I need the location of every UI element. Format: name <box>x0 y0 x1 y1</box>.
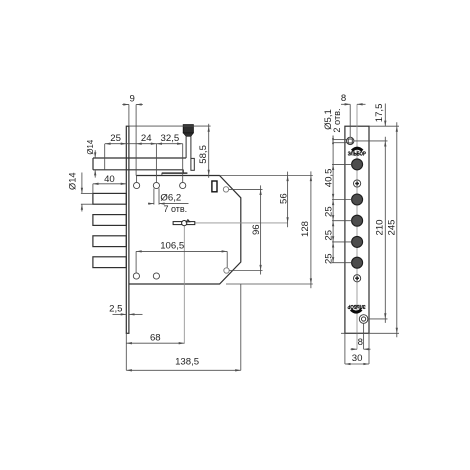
svg-text:40: 40 <box>104 174 115 185</box>
svg-text:58,5: 58,5 <box>198 145 209 164</box>
svg-text:ЭЛЬБОР: ЭЛЬБОР <box>348 151 366 157</box>
svg-text:245: 245 <box>387 219 398 235</box>
svg-text:32,5: 32,5 <box>161 133 180 144</box>
svg-text:8: 8 <box>341 93 346 104</box>
svg-text:Ø14: Ø14 <box>68 172 78 190</box>
svg-text:9: 9 <box>130 93 135 104</box>
svg-text:40,5: 40,5 <box>323 169 334 188</box>
svg-text:30: 30 <box>352 353 363 364</box>
svg-text:17,5: 17,5 <box>374 104 385 123</box>
svg-text:25: 25 <box>323 230 334 241</box>
svg-text:68: 68 <box>150 332 161 343</box>
svg-text:2,5: 2,5 <box>109 304 122 315</box>
svg-text:138,5: 138,5 <box>175 357 199 368</box>
svg-text:106,5: 106,5 <box>160 240 184 251</box>
svg-text:25: 25 <box>323 253 334 264</box>
svg-text:96: 96 <box>251 224 262 235</box>
svg-text:25: 25 <box>110 133 121 144</box>
svg-text:25: 25 <box>323 206 334 217</box>
svg-text:2 отв.: 2 отв. <box>332 108 342 132</box>
svg-text:7 отв.: 7 отв. <box>163 204 187 214</box>
svg-text:56: 56 <box>278 193 289 204</box>
svg-text:24: 24 <box>141 133 152 144</box>
svg-text:128: 128 <box>300 221 311 237</box>
svg-text:Ø6,2: Ø6,2 <box>160 193 181 204</box>
svg-text:ЭЛЬБОР: ЭЛЬБОР <box>347 303 365 309</box>
svg-text:8: 8 <box>358 337 363 348</box>
svg-text:Ø14: Ø14 <box>86 139 95 154</box>
svg-text:210: 210 <box>374 219 385 235</box>
